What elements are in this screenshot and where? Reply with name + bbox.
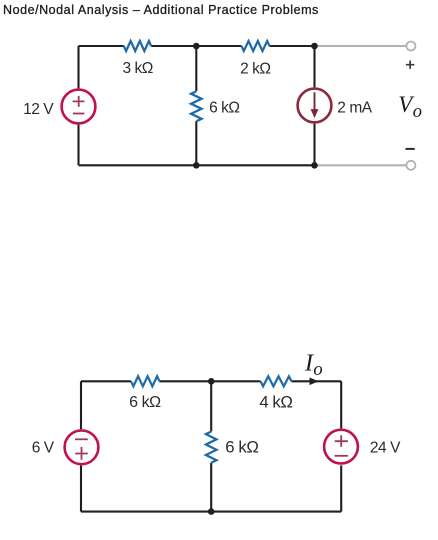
svg-text:Io: Io: [304, 350, 323, 380]
svg-text:24 V: 24 V: [370, 439, 401, 456]
svg-text:12 V: 12 V: [23, 101, 54, 118]
svg-text:Vo: Vo: [398, 92, 422, 122]
svg-text:2 mA: 2 mA: [337, 99, 372, 116]
svg-text:6 V: 6 V: [32, 440, 55, 457]
svg-text:3 kΩ: 3 kΩ: [122, 60, 152, 77]
svg-text:2 kΩ: 2 kΩ: [240, 60, 270, 77]
svg-text:4 kΩ: 4 kΩ: [259, 392, 292, 411]
svg-text:6 kΩ: 6 kΩ: [225, 437, 258, 456]
svg-text:6 kΩ: 6 kΩ: [209, 100, 239, 117]
svg-text:6 kΩ: 6 kΩ: [129, 394, 161, 411]
